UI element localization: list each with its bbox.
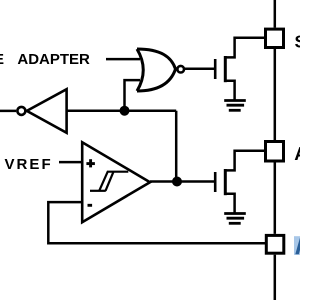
highlighted blue label bbox=[294, 236, 303, 255]
svg-text:S: S bbox=[295, 32, 301, 52]
plus symbol bbox=[86, 159, 95, 167]
wire inverter output left bbox=[0, 110, 16, 113]
wire bus segment 3 bbox=[274, 163, 277, 234]
svg-text:ADAPTER: ADAPTER bbox=[17, 51, 90, 68]
wire inverter input rail bbox=[67, 109, 177, 112]
wire NOR output to Q1 gate bbox=[185, 68, 215, 71]
inverter U2 bbox=[27, 89, 67, 133]
wire NOR input B vertical from node A bbox=[125, 80, 141, 111]
transistor Q2 bbox=[215, 151, 265, 214]
node A junction dot bbox=[120, 106, 130, 116]
wire minus input feedback bbox=[48, 202, 265, 243]
svg-text:VREF: VREF bbox=[5, 156, 53, 173]
wire vertical rail to comparator output bbox=[175, 111, 178, 182]
NOR output bubble bbox=[177, 66, 184, 73]
label E ADAPTER bbox=[0, 51, 90, 68]
svg-text:E: E bbox=[0, 51, 4, 68]
NOR gate U1 bbox=[137, 49, 176, 91]
node B junction dot bbox=[172, 177, 182, 187]
pad SW bbox=[266, 29, 284, 47]
hysteresis symbol bbox=[90, 172, 128, 191]
svg-text:A: A bbox=[294, 143, 300, 164]
inverter bubble bbox=[17, 107, 25, 115]
ground for Q1 bbox=[224, 101, 246, 111]
wire bus segment 2 bbox=[274, 49, 277, 140]
minus symbol bbox=[88, 204, 93, 207]
wire adapter to NOR input A bbox=[106, 58, 140, 61]
wire VREF to plus input bbox=[59, 161, 82, 164]
transistor Q1 bbox=[215, 38, 264, 101]
ground for Q2 bbox=[224, 214, 246, 224]
comparator U3 bbox=[82, 142, 150, 222]
wire bus bottom segment bbox=[274, 255, 277, 300]
wire bus top segment bbox=[274, 0, 277, 28]
pad bottom bbox=[266, 235, 284, 253]
wire comparator output to Q2 gate bbox=[150, 180, 214, 183]
pad A bbox=[266, 142, 284, 162]
